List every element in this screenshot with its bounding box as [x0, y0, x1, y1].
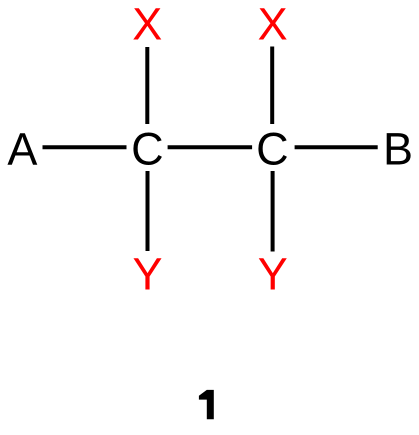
bond C2-B [295, 145, 378, 149]
compound number 1 [199, 390, 214, 419]
svg-text:C: C [256, 124, 289, 175]
bond C1-C2 [168, 145, 253, 149]
svg-text:C: C [131, 124, 164, 175]
svg-text:Y: Y [258, 249, 288, 300]
svg-text:A: A [7, 124, 37, 175]
svg-text:Y: Y [132, 249, 162, 300]
bond C1-X1 [145, 47, 149, 124]
svg-text:B: B [383, 124, 413, 175]
bond C1-Y1 [146, 171, 150, 251]
bond C2-Y2 [271, 171, 275, 252]
bond A-C1 [43, 145, 127, 149]
bond C2-X2 [270, 47, 274, 125]
svg-text:X: X [258, 0, 288, 50]
svg-text:X: X [132, 0, 162, 50]
